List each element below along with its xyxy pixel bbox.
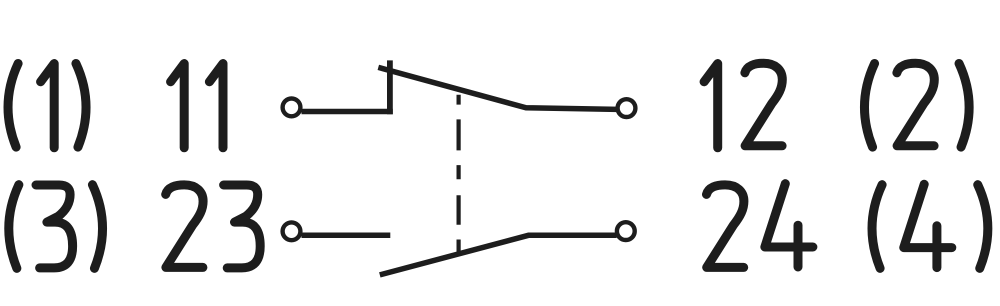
NC contact moving arm (closed) and wire to terminal 12 xyxy=(378,67,617,109)
label (1) xyxy=(8,64,86,148)
NO contact moving arm (open) and wire to terminal 24 xyxy=(380,235,617,275)
terminal circle 24 xyxy=(617,222,635,240)
label (2) xyxy=(864,63,969,147)
wire from terminal 11 to NC contact pivot xyxy=(302,109,393,115)
terminal circle 11 xyxy=(283,99,301,117)
NC contact fixed stop (vertical with tick) xyxy=(387,60,393,114)
label (3) xyxy=(9,185,103,269)
wire from terminal 23 (open end) xyxy=(302,232,391,238)
label (4) xyxy=(872,184,988,268)
terminal label 11 xyxy=(171,64,223,148)
terminal label 24 xyxy=(707,184,813,268)
terminal circle 12 xyxy=(618,99,636,117)
terminal label 23 xyxy=(166,185,260,268)
terminal circle 23 xyxy=(283,222,301,240)
mechanical linkage dashed line xyxy=(457,95,461,254)
terminal label 12 xyxy=(704,63,782,148)
